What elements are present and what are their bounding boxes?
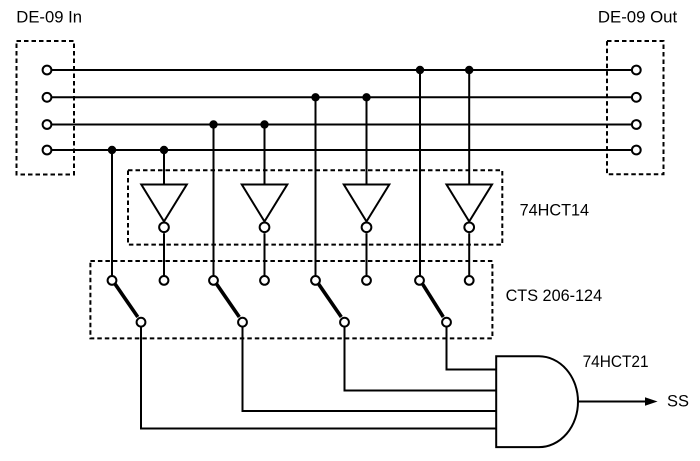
svg-text:DE-09 Out: DE-09 Out: [598, 8, 678, 26]
arrowhead SS output: [646, 398, 657, 405]
wire U1C output down to S3 right pin: [366, 233, 368, 276]
switch S1 DIP dashed outline CTS 206-124: [90, 261, 492, 338]
wire row2 tap A down to S3 left pin: [315, 97, 317, 275]
wire row1 J1-1 to J2-1: [52, 69, 631, 71]
wire S1 common to U2 input 4: [141, 327, 496, 429]
wire U1D output down to S4 right pin: [468, 233, 470, 276]
wire row4 tap B down to U1A input: [163, 150, 165, 185]
inverter U1B: [242, 185, 287, 233]
wire row2 tap B down to U1C input: [366, 97, 368, 184]
inverter U1D: [447, 185, 493, 233]
wire row4 tap A down to S1 left pin: [111, 150, 113, 276]
wire row1 tap A down to S4 left pin: [419, 70, 421, 276]
pin J2-4: [632, 146, 641, 155]
wire S2 common to U2 input 3: [243, 327, 497, 411]
wire row3 tap A down to S2 left pin: [213, 125, 215, 276]
node row2 tap B (junction dot): [362, 93, 370, 101]
wire row3 tap B down to U1B input: [264, 125, 266, 185]
node row1 tap B (junction dot): [465, 66, 473, 74]
node row3 tap B (junction dot): [260, 120, 268, 128]
wire S4 common to U2 input 1: [447, 327, 497, 370]
wire row2 J1-2 to J2-2: [52, 96, 631, 98]
IC U1 74HCT14 dashed outline: [128, 170, 502, 244]
wire S3 common to U2 input 2: [345, 327, 497, 391]
node row2 tap A (junction dot): [311, 93, 319, 101]
pin J1-1: [43, 66, 52, 75]
pin J2-3: [632, 120, 641, 129]
svg-text:DE-09 In: DE-09 In: [16, 9, 82, 27]
wire U1B output down to S2 right pin: [264, 233, 266, 276]
pin J1-4: [43, 146, 52, 155]
wire U1A output down to S1 right pin: [163, 233, 165, 276]
wire row3 J1-3 to J2-3: [52, 124, 631, 126]
connector J2 DE-09 Out dashed outline: [607, 41, 664, 174]
wire row4 J1-4 to J2-4: [52, 149, 631, 151]
pin J2-2: [632, 93, 641, 102]
switch S1D: [415, 276, 474, 327]
node row4 tap A (junction dot): [108, 146, 116, 154]
node row3 tap A (junction dot): [209, 120, 217, 128]
svg-text:SS: SS: [667, 392, 689, 410]
connector J1 DE-09 In dashed outline: [17, 41, 75, 175]
pin J2-1: [632, 66, 641, 75]
inverter U1C: [344, 185, 390, 233]
svg-text:CTS 206-124: CTS 206-124: [506, 287, 602, 305]
pin J1-3: [43, 120, 52, 129]
inverter U1A: [141, 185, 187, 233]
AND gate U2 74HCT21: [496, 356, 578, 447]
svg-text:74HCT21: 74HCT21: [583, 353, 649, 371]
wire row1 tap B down to U1D input: [468, 70, 470, 185]
switch S1A: [108, 276, 169, 327]
wire U2 output to SS arrow: [578, 401, 647, 403]
switch S1B: [209, 276, 269, 327]
node row4 tap B (junction dot): [160, 146, 168, 154]
svg-text:74HCT14: 74HCT14: [520, 202, 590, 220]
pin J1-2: [43, 93, 52, 102]
node row1 tap A (junction dot): [416, 66, 424, 74]
switch S1C: [311, 276, 371, 327]
